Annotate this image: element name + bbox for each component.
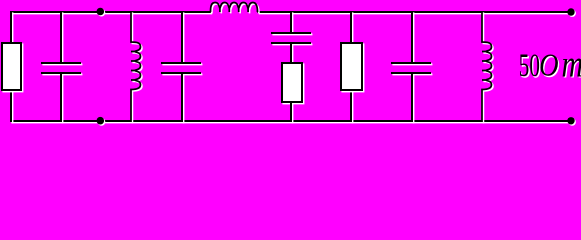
capacitor C1 (first shunt capacitor)	[41, 11, 82, 123]
label: load unit letter m	[562, 44, 581, 86]
node: input port junction dots	[97, 8, 106, 126]
resistor R2 (resistor of shunt RC branch)	[282, 63, 303, 103]
label: load value 50	[519, 46, 541, 84]
resistor R3 (shunt resistor)	[341, 43, 363, 91]
wire: R3 leads	[351, 11, 352, 123]
wire: top and bottom rails	[10, 12, 572, 122]
node: output port junction dots	[567, 8, 576, 125]
wire: RC branch lower lead	[291, 102, 292, 123]
inductor L2 (series inductor, top rail)	[211, 2, 259, 13]
resistor R1 (source resistor, left)	[2, 43, 22, 91]
inductor L1 (first shunt inductor)	[131, 11, 142, 123]
capacitor C3 (capacitor of shunt RC branch)	[271, 11, 312, 64]
capacitor C4 (third shunt capacitor)	[391, 11, 432, 123]
capacitor C2 (second shunt capacitor)	[161, 11, 202, 123]
wire: left vertical leads of source	[11, 11, 12, 123]
inductor L3 (second shunt inductor)	[482, 11, 493, 123]
label: load unit letter O	[539, 49, 560, 85]
